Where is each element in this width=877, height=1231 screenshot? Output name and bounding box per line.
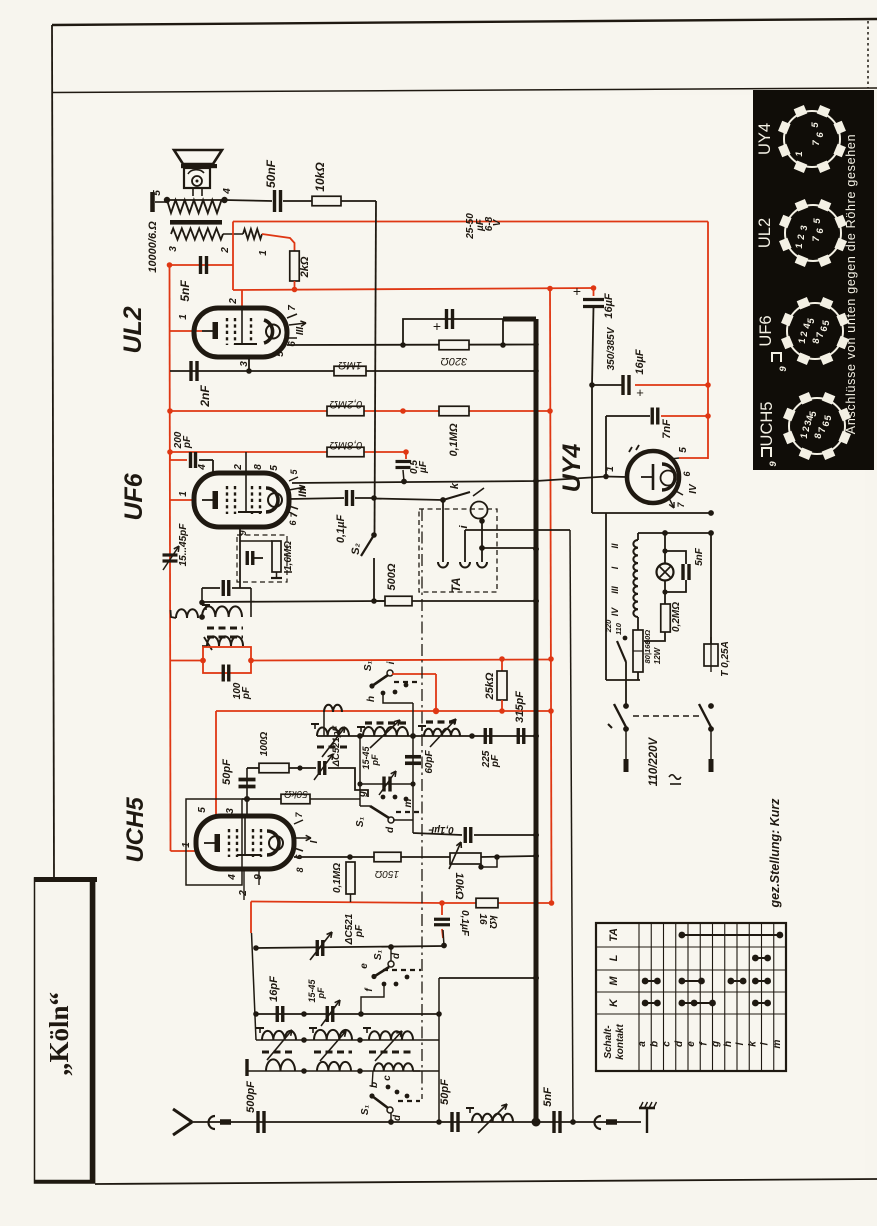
svg-text:g: g [711,1041,722,1048]
svg-text:UY4: UY4 [558,444,586,493]
svg-text:5: 5 [810,122,821,128]
svg-text:110/220V: 110/220V [648,736,660,786]
svg-text:b: b [649,1041,660,1047]
svg-text:II: II [297,487,309,494]
svg-text:S₁: S₁ [373,949,384,960]
svg-text:d: d [674,1040,685,1047]
svg-text:g: g [357,791,368,798]
svg-text:9: 9 [238,530,248,535]
svg-text:10000/6.Ω: 10000/6.Ω [147,221,159,273]
svg-text:1: 1 [258,250,269,256]
svg-text:15...45pF: 15...45pF [178,523,189,567]
svg-text:3: 3 [225,808,236,814]
svg-text:d: d [391,952,402,959]
svg-text:5: 5 [152,190,163,196]
svg-text:1MΩ: 1MΩ [338,359,362,371]
svg-text:„Köln“: „Köln“ [44,992,74,1076]
svg-text:UY4: UY4 [756,123,774,155]
svg-text:320Ω: 320Ω [441,355,468,367]
svg-text:100Ω: 100Ω [259,732,270,757]
svg-text:5: 5 [678,447,689,453]
svg-text:M: M [608,976,620,986]
svg-text:III: III [610,586,620,594]
svg-text:e: e [686,1041,697,1047]
svg-text:TA: TA [608,928,620,942]
svg-text:2: 2 [233,464,244,471]
svg-text:ΔC521pF: ΔC521pF [331,725,342,767]
svg-text:b: b [369,1082,380,1088]
svg-text:0,1µF: 0,1µF [427,824,454,835]
svg-text:1: 1 [178,314,189,320]
svg-text:µF: µF [418,460,429,474]
svg-text:+: + [573,283,581,299]
svg-text:315pF: 315pF [514,691,526,723]
svg-text:8: 8 [295,867,305,872]
svg-text:0,1µF: 0,1µF [335,515,347,544]
svg-text:0,1µF: 0,1µF [459,910,470,937]
svg-text:5: 5 [197,807,208,813]
svg-text:50nF: 50nF [264,159,278,188]
svg-text:k: k [747,1041,758,1047]
svg-text:h: h [366,696,377,702]
svg-text:9: 9 [778,366,789,372]
svg-text:d: d [385,826,396,833]
svg-text:4: 4 [197,464,208,471]
svg-text:2: 2 [796,234,807,241]
svg-text:h: h [723,1041,734,1047]
svg-text:i: i [735,1042,746,1045]
svg-text:1: 1 [799,433,810,438]
svg-text:50pF: 50pF [439,1079,451,1105]
svg-text:pF: pF [354,924,365,938]
svg-text:350/385V: 350/385V [606,326,617,370]
svg-text:5: 5 [823,415,834,421]
svg-text:5nF: 5nF [694,547,705,566]
svg-text:kontakt: kontakt [615,1024,626,1060]
svg-text:60pF: 60pF [424,749,435,773]
svg-text:500pF: 500pF [245,1081,257,1113]
svg-text:1: 1 [794,151,805,156]
svg-text:2: 2 [220,247,231,254]
svg-text:TA: TA [449,577,463,592]
svg-text:2: 2 [228,298,239,305]
svg-text:2kΩ: 2kΩ [299,256,311,278]
svg-text:1: 1 [794,243,805,248]
svg-text:2: 2 [799,331,810,338]
svg-text:5: 5 [269,465,280,471]
svg-text:i: i [386,661,397,664]
svg-text:5: 5 [812,218,823,224]
svg-text:Schalt-: Schalt- [603,1025,614,1059]
svg-text:5: 5 [806,318,817,324]
svg-text:16µF: 16µF [603,293,615,319]
svg-text:I: I [309,840,320,843]
svg-text:3: 3 [168,246,179,252]
svg-text:UL2: UL2 [756,218,774,248]
svg-text:a: a [637,1041,648,1047]
svg-text:pF: pF [490,754,501,768]
svg-text:d: d [392,1114,403,1121]
svg-text:110: 110 [614,622,623,635]
svg-text:kΩ: kΩ [487,915,498,929]
svg-text:50kΩ: 50kΩ [284,788,308,799]
svg-text:1: 1 [178,491,189,497]
svg-text:50pF: 50pF [221,759,233,785]
svg-text:5: 5 [821,320,832,326]
svg-text:0,2MΩ: 0,2MΩ [330,398,363,410]
svg-text:0,1MΩ: 0,1MΩ [332,863,343,893]
svg-text:7: 7 [811,140,822,146]
svg-text:150Ω: 150Ω [374,868,399,879]
svg-text:0,1MΩ: 0,1MΩ [448,423,460,456]
svg-text:UF6: UF6 [757,315,775,346]
svg-text:4: 4 [227,874,238,881]
svg-text:Anschlüsse von unten gegen die: Anschlüsse von unten gegen die Röhre ges… [844,134,858,434]
svg-text:220: 220 [604,619,613,633]
svg-text:S₁: S₁ [360,1104,371,1115]
svg-text:9: 9 [768,461,779,467]
svg-text:l: l [760,1042,771,1045]
svg-text:c: c [662,1041,673,1047]
svg-text:12W: 12W [653,646,662,664]
svg-text:5: 5 [808,411,819,417]
svg-text:5nF: 5nF [178,280,192,302]
svg-text:6: 6 [815,132,826,138]
svg-text:gez.Stellung: Kurz: gez.Stellung: Kurz [768,798,782,909]
svg-text:8: 8 [253,464,264,470]
svg-text:S₁: S₁ [355,816,366,827]
svg-text:16: 16 [477,913,488,925]
svg-text:1,6MΩ: 1,6MΩ [283,541,294,571]
svg-text:S₂: S₂ [350,543,362,555]
svg-text:L: L [608,954,620,961]
svg-text:+: + [433,318,441,334]
svg-text:c: c [382,1075,393,1081]
svg-text:10kΩ: 10kΩ [313,162,327,192]
svg-text:e: e [359,963,370,969]
svg-text:UL2: UL2 [119,306,147,353]
svg-text:UCH5: UCH5 [122,797,149,863]
svg-text:90Ω: 90Ω [643,630,652,644]
svg-text:16pF: 16pF [268,976,280,1002]
svg-text:K: K [608,998,620,1007]
svg-text:16µF: 16µF [634,349,646,375]
svg-text:5nF: 5nF [542,1087,554,1107]
svg-text:UCH5: UCH5 [758,402,776,447]
svg-text:k: k [449,482,461,489]
svg-text:500Ω: 500Ω [386,563,398,590]
svg-text:IV: IV [610,607,620,617]
svg-text:m: m [772,1039,783,1048]
svg-text:pF: pF [316,987,326,999]
svg-text:5: 5 [275,351,286,357]
svg-text:UF6: UF6 [120,472,148,520]
svg-text:0,8MΩ: 0,8MΩ [330,439,363,451]
svg-text:S₁: S₁ [363,660,374,671]
svg-text:pF: pF [182,435,193,449]
svg-text:4: 4 [222,188,233,195]
svg-text:7: 7 [811,236,822,242]
svg-text:pF: pF [241,686,252,700]
svg-text:7: 7 [287,305,298,311]
svg-text:IV: IV [688,483,699,494]
svg-text:1: 1 [797,338,808,343]
svg-text:2: 2 [801,426,812,433]
svg-text:T 0,25A: T 0,25A [720,641,731,677]
svg-text:7nF: 7nF [661,419,673,439]
svg-text:2nF: 2nF [198,385,212,408]
svg-text:II: II [610,543,620,549]
svg-text:0,2MΩ: 0,2MΩ [671,602,682,632]
svg-text:25kΩ: 25kΩ [484,672,496,700]
svg-text:3: 3 [799,225,810,231]
svg-text:III: III [295,327,306,336]
svg-text:+: + [636,385,644,400]
svg-text:6: 6 [815,228,826,234]
svg-text:pF: pF [370,754,380,766]
svg-text:10kΩ: 10kΩ [453,873,465,900]
